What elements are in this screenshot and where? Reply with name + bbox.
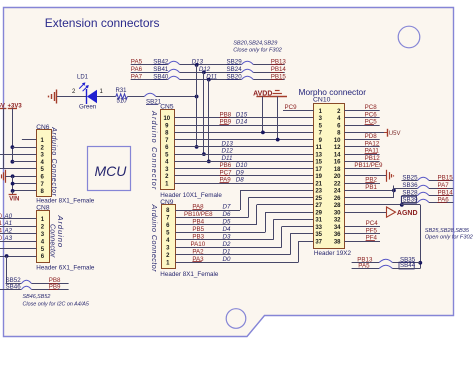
wire SB39 to PA6	[429, 202, 453, 204]
wire PB12 stub	[344, 161, 379, 163]
wire CN10 row13 stub	[344, 197, 394, 199]
wire CN8 pin1	[0, 218, 36, 220]
wire A5 vertical to SB52	[6, 256, 8, 283]
reference CN8	[36, 205, 50, 212]
wire CN9 pin6 horizontal	[176, 224, 257, 226]
svg-text:13: 13	[315, 152, 322, 158]
svg-text:15: 15	[315, 160, 322, 166]
junction AVDD / CN5 pin8 row	[261, 130, 265, 134]
svg-text:12: 12	[334, 145, 341, 151]
power +3V3	[8, 103, 23, 109]
svg-text:0: 0	[0, 235, 3, 242]
net PB13 bottom	[357, 257, 373, 264]
wire CN8 pin5 A4	[0, 248, 36, 250]
svg-text:CN9: CN9	[160, 199, 174, 206]
junction D11 / CN5	[207, 159, 211, 163]
junction ground / CN5 pin7 row	[276, 138, 280, 142]
wire SB46 to PB9	[32, 289, 69, 291]
wire CN5 row to CN10 row 11	[174, 183, 313, 185]
node D12	[199, 66, 211, 73]
svg-text:LD1: LD1	[77, 75, 89, 81]
wire CN5 row to CN10 row 4	[174, 132, 313, 134]
junction row14 / bridge vertical B	[400, 203, 404, 207]
svg-text:SB20,SB24,SB29: SB20,SB24,SB29	[233, 40, 277, 46]
svg-text:38: 38	[334, 239, 341, 245]
mounting hole circle top-right	[398, 26, 420, 48]
wire mid ground vertical	[277, 96, 279, 139]
wire CN8 pin2	[0, 226, 36, 228]
net PA10 / D2 (CN9 pin3)	[191, 241, 231, 248]
junction SB35 row	[418, 261, 422, 265]
net PA6	[438, 197, 450, 204]
wire D0 to CN10 row 19	[298, 241, 313, 243]
wire SB52 to PB8	[32, 283, 69, 285]
wire PA5 to SB44	[352, 268, 380, 270]
wire PA5 to SB42	[131, 64, 168, 66]
ground symbol at CN6	[2, 170, 6, 183]
label SB21	[146, 98, 162, 105]
net PF5 (CN10 row 18)	[366, 227, 378, 234]
wire CN8 pin3	[0, 233, 36, 235]
net A1 (CN8 pin2)	[0, 220, 13, 227]
ground symbol at CN10	[387, 170, 394, 182]
wire SB29 to PB13	[253, 64, 284, 66]
wire CN5 row to CN10 row 5	[174, 139, 313, 141]
junction CN6 pin8	[11, 189, 15, 193]
svg-text:Header 10X1_Female: Header 10X1_Female	[160, 192, 222, 199]
ground symbol mid (inverted)	[269, 91, 287, 97]
svg-text:Arduino Connector: Arduino Connector	[150, 204, 159, 273]
label Morpho connector	[299, 87, 367, 97]
wire LED to R31	[97, 96, 116, 98]
wire CN5 row to CN10 row 8	[174, 161, 313, 163]
svg-text:A3: A3	[4, 235, 13, 242]
wire SB21 to D13 node	[156, 96, 197, 98]
net PB14	[438, 189, 454, 196]
svg-text:D2: D2	[223, 241, 231, 248]
solder bridge SB24	[227, 66, 254, 73]
ground symbol GND1 (left of LED)	[49, 90, 63, 104]
svg-text:25: 25	[315, 196, 322, 202]
label MCU	[95, 163, 128, 179]
wire CN6 pin1 stub	[22, 139, 36, 141]
svg-text:22: 22	[334, 181, 341, 187]
wire SB42 to SB29	[180, 64, 242, 66]
svg-text:28: 28	[334, 203, 341, 209]
connector CN8 body	[37, 211, 50, 263]
wire row14 to SB35 vertical	[402, 205, 421, 269]
power VIN	[9, 191, 20, 203]
svg-text:D7: D7	[223, 204, 231, 211]
node D13 at CN5	[222, 140, 234, 147]
wire D1 to CN10 row 18	[290, 233, 314, 235]
wire CN9 pin4 horizontal	[176, 239, 274, 241]
wire CN6 pin4 to +3V3	[12, 161, 36, 163]
wire D13 vertical	[196, 65, 198, 147]
wire PB13 to SB35	[352, 262, 380, 264]
svg-text:SB25,SB28,SB35: SB25,SB28,SB35	[425, 228, 470, 234]
MCU block U1	[88, 147, 131, 191]
net PA11 (CN10 row 7)	[365, 148, 380, 155]
label Arduino CN8	[56, 215, 65, 248]
wire PB2 stub	[344, 183, 380, 185]
wire PC9 stub	[283, 110, 314, 112]
net PB3 / D3 (CN9 pin4)	[192, 233, 231, 240]
power +5V	[0, 103, 6, 169]
pin numbers CN5 10-1	[163, 116, 170, 187]
net PA5	[131, 59, 143, 66]
power U5V	[384, 129, 400, 137]
svg-text:37: 37	[315, 239, 322, 245]
wire PC5 stub	[344, 125, 379, 127]
solder bridge SB39	[401, 196, 429, 203]
net A2 (CN8 pin3)	[0, 228, 13, 235]
svg-text:29: 29	[315, 210, 322, 216]
svg-text:Close only for F302: Close only for F302	[233, 47, 282, 53]
svg-text:36: 36	[334, 232, 341, 238]
svg-text:31: 31	[315, 218, 322, 224]
wire SB44 to vertical	[392, 268, 420, 270]
svg-text:D10: D10	[236, 162, 248, 169]
svg-text:MCU: MCU	[95, 163, 128, 179]
svg-text:Header 6X1_Female: Header 6X1_Female	[36, 264, 95, 271]
junction D13 / CN5	[195, 145, 199, 149]
svg-text:24: 24	[334, 189, 341, 195]
svg-text:CN6: CN6	[36, 124, 50, 131]
net PB10/PE8 / D6 (CN9 pin7)	[184, 211, 231, 218]
solder bridge SB29	[227, 59, 254, 66]
wire D3 vertical	[273, 219, 275, 239]
net PC5 (CN10 row 3)	[365, 119, 378, 126]
wire SB24 to PB14	[253, 72, 284, 74]
svg-text:32: 32	[334, 218, 341, 224]
label Green	[79, 104, 97, 111]
wire D11 vertical	[208, 80, 210, 162]
connector CN5 body	[161, 110, 175, 190]
svg-text:D8: D8	[236, 177, 244, 184]
svg-text:11: 11	[316, 145, 323, 151]
junction CN6 pin6	[11, 174, 15, 178]
wire D4 to CN10 row 15	[265, 212, 314, 214]
power AVDD	[253, 90, 272, 97]
label Header 19X2 CN10	[314, 250, 352, 257]
reference CN9	[160, 199, 174, 206]
svg-text:D11: D11	[222, 155, 233, 162]
wire CN5 row to CN10 row 7	[174, 154, 313, 156]
svg-text:CN10: CN10	[313, 97, 331, 104]
resistor R31	[116, 94, 128, 99]
net PB5 / D4 (CN9 pin5)	[192, 226, 231, 233]
wire D5 to CN10 row 14	[257, 204, 314, 206]
junction D12 / CN5	[202, 152, 206, 156]
net PC9 (CN10 pin1)	[285, 104, 298, 111]
wire SB20 to PB15	[253, 79, 284, 81]
wire bridge vertical A	[393, 186, 395, 198]
wire SB35 to vertical	[392, 262, 420, 264]
note SB25,SB28,SB35	[425, 228, 470, 234]
svg-text:D15: D15	[236, 111, 248, 118]
wire PA7 to SB40	[131, 79, 168, 81]
svg-text:SB46,SB52: SB46,SB52	[23, 294, 51, 300]
net PB8 / D15	[220, 111, 248, 118]
junction D11 row	[207, 78, 211, 82]
svg-text:18: 18	[334, 167, 341, 173]
svg-text:10: 10	[334, 138, 341, 144]
svg-text:CN5: CN5	[160, 103, 174, 110]
wire CN9 pin5 horizontal	[176, 232, 266, 234]
svg-text:Extension connectors: Extension connectors	[45, 16, 160, 30]
wire CN9 pin7 horizontal	[176, 217, 249, 219]
svg-text:26: 26	[334, 196, 341, 202]
svg-text:21: 21	[315, 181, 322, 187]
svg-text:33: 33	[315, 225, 322, 231]
wire CN5 row to CN10 row 9	[174, 168, 313, 170]
label LD1	[77, 75, 89, 81]
solder bridge SB25	[402, 175, 430, 182]
solder bridge SB46	[0, 284, 32, 291]
net A3 (CN8 pin4)	[0, 235, 13, 242]
net PB1	[365, 184, 377, 191]
wire bridge vertical B	[401, 196, 403, 205]
svg-text:Close only for I2C on A4/A5: Close only for I2C on A4/A5	[23, 302, 90, 308]
note Open only for F302	[425, 235, 474, 241]
wire SB25 to PB15	[429, 180, 453, 182]
junction +3V3 / CN6 pin4	[11, 160, 15, 164]
net PF4 (CN10 row 19)	[366, 235, 378, 242]
net PC6 (CN10 row 2)	[365, 111, 378, 118]
wire ground vertical CN6	[12, 176, 14, 191]
svg-text:U5V: U5V	[389, 131, 401, 137]
reference CN5	[160, 103, 174, 110]
solder bridge SB28	[402, 189, 429, 196]
wire CN9 pin1 horizontal	[176, 262, 299, 264]
wire PA12 stub	[344, 146, 379, 148]
note Close only for I2C on A4/A5	[23, 302, 90, 308]
svg-text:D0: D0	[223, 256, 231, 263]
pin numbers CN9 8-1	[166, 208, 170, 266]
wire D2 to CN10 row 17	[282, 226, 314, 228]
svg-text:17: 17	[315, 167, 322, 173]
node D13	[192, 59, 204, 66]
pin numbers CN8 1-6	[41, 217, 45, 260]
net PA2 / D1 (CN9 pin2)	[192, 248, 230, 255]
note SB46,SB52	[23, 294, 51, 300]
junction PB1 / bridge vertical	[392, 188, 396, 192]
svg-text:CN8: CN8	[36, 205, 50, 212]
svg-text:Morpho connector: Morpho connector	[299, 87, 367, 97]
net PA7	[438, 182, 450, 189]
svg-text:AGND: AGND	[397, 210, 418, 217]
junction D13 row	[195, 63, 199, 67]
net PB15	[271, 73, 287, 80]
connector CN9 body	[162, 205, 176, 269]
svg-text:PA10: PA10	[191, 241, 206, 248]
net PB9 (I2C)	[49, 284, 61, 291]
svg-text:20: 20	[334, 174, 341, 180]
svg-text:30: 30	[334, 210, 341, 216]
wire D5 vertical	[256, 205, 258, 225]
label R31	[116, 88, 128, 94]
solder bridge SB20	[227, 73, 254, 80]
solder bridge SB44	[379, 262, 415, 269]
svg-text:16: 16	[334, 160, 341, 166]
svg-text:SB41: SB41	[153, 66, 169, 73]
wire CN9 pin2 horizontal	[176, 254, 291, 256]
svg-text:10: 10	[163, 116, 170, 122]
svg-text:SB24: SB24	[227, 66, 243, 73]
svg-text:35: 35	[315, 232, 322, 238]
wire CN6 pin8 VIN	[13, 190, 37, 192]
wire CN9 pin3 horizontal	[176, 247, 282, 249]
wire PC6 stub	[344, 117, 379, 119]
svg-text:14: 14	[334, 152, 341, 158]
wire CN6 pin7	[13, 183, 37, 185]
connector CN10 body	[314, 104, 345, 249]
wire CN10 row14 stub	[344, 204, 401, 206]
wire CN5 row to CN10 row 3	[174, 125, 313, 127]
wire PA11 stub	[344, 154, 379, 156]
wire PC8 stub	[344, 110, 379, 112]
wire D7 vertical	[240, 190, 242, 210]
svg-text:PB1: PB1	[365, 184, 377, 191]
svg-text:D4: D4	[223, 226, 231, 233]
net PA9 / D8	[220, 177, 245, 184]
wire D12 vertical	[203, 72, 205, 154]
solder bridge SB35	[379, 257, 415, 264]
wire D2 vertical	[281, 227, 283, 248]
wire D0 vertical	[298, 241, 300, 262]
wire PB11/PE9 stub	[344, 168, 379, 170]
svg-text:R31: R31	[116, 88, 128, 94]
junction LED wire / D13 vertical	[195, 95, 199, 99]
wire CN6 pin5 to +5V	[0, 168, 36, 170]
wire AVDD vertical	[262, 96, 264, 132]
net PA12 (CN10 row 6)	[365, 140, 380, 147]
wire D7 to CN10 row 12	[240, 190, 314, 192]
svg-text:510: 510	[117, 99, 128, 105]
net PA6	[131, 66, 143, 73]
title Extension connectors	[45, 16, 160, 30]
net PB11/PE9 (CN10 row 9)	[354, 162, 383, 169]
svg-text:34: 34	[334, 225, 341, 231]
note SB20,SB24,SB29	[233, 40, 277, 46]
wire CN8 pin4	[0, 241, 36, 243]
svg-text:Arduino Connector: Arduino Connector	[50, 126, 57, 196]
mounting hole circle bottom	[226, 309, 246, 329]
power AGND	[387, 207, 418, 217]
junction CN8 pin6 / SB52	[5, 254, 9, 258]
label Arduino Connector CN9	[150, 204, 159, 273]
wire CN5 row to CN10 row 10	[174, 175, 313, 177]
svg-text:PB14: PB14	[271, 66, 287, 73]
wire PA6 to SB41	[131, 72, 168, 74]
wire D1 vertical	[290, 234, 292, 255]
node D11	[206, 73, 217, 80]
svg-text:PC9: PC9	[285, 104, 298, 111]
note Close only for F302	[233, 47, 282, 53]
svg-text:D12: D12	[222, 148, 234, 155]
wire CN5 row to CN10 row 6	[174, 146, 313, 148]
wire SB40 to SB20	[180, 79, 242, 81]
wire PF5 stub	[344, 233, 380, 235]
wire D6 to CN10 row 13	[248, 197, 313, 199]
pin number 2 of LD1	[72, 89, 76, 95]
solder bridge SB42	[153, 59, 179, 66]
net PA7	[131, 73, 143, 80]
net PB13	[271, 59, 287, 66]
label Header 6X1_Female CN8	[36, 264, 95, 271]
svg-text:D9: D9	[236, 169, 244, 176]
label Header 8X1_Female CN6	[36, 198, 95, 205]
net PC7 / D9	[220, 169, 245, 176]
label Arduino Connector CN6	[50, 126, 57, 196]
wire PD8 stub	[344, 139, 379, 141]
wire CN8 pin6 A5	[0, 256, 36, 258]
wire D4 vertical	[265, 212, 267, 232]
svg-text:Arduino Connector: Arduino Connector	[150, 110, 159, 190]
net PB12 (CN10 row 8)	[365, 155, 381, 162]
net PC4 (CN10 row 17)	[366, 220, 379, 227]
wire CN9 pin8 horizontal	[176, 210, 241, 212]
junction D12 row	[202, 70, 206, 74]
net PA3 / D0 (CN9 pin1)	[192, 256, 231, 263]
net PB15	[438, 175, 454, 182]
net PC8 (CN10 row 1)	[365, 104, 378, 111]
svg-text:SB36: SB36	[402, 182, 418, 189]
wire CN6 pin3 NRST	[0, 154, 36, 156]
svg-text:PA6: PA6	[131, 66, 143, 73]
svg-text:Header 19X2: Header 19X2	[314, 250, 352, 257]
connector CN6 body	[37, 130, 52, 197]
net A0 (CN8 pin1)	[0, 213, 13, 220]
wire PF4 stub	[344, 241, 380, 243]
svg-text:PB5: PB5	[192, 226, 204, 233]
svg-text:Connector: Connector	[49, 224, 56, 258]
wire SB36 to PA7	[429, 188, 453, 190]
label Header 8X1_Female CN9	[160, 271, 219, 278]
net PB4 / D5 (CN9 pin6)	[192, 219, 231, 226]
net PA8 / D7 (CN9 pin8)	[192, 204, 231, 211]
wire PB1 stub	[344, 190, 394, 192]
wire CN10 pin30 to AGND	[344, 212, 386, 214]
svg-text:VIN: VIN	[9, 197, 19, 203]
svg-text:Header 8X1_Female: Header 8X1_Female	[160, 271, 219, 278]
wire CN10 pin8 to U5V	[344, 132, 387, 134]
svg-text:PA7: PA7	[438, 182, 450, 189]
solder bridge SB36	[394, 182, 429, 189]
wire D6 vertical	[248, 198, 250, 218]
svg-text:Green: Green	[79, 104, 97, 111]
svg-text:23: 23	[315, 189, 322, 195]
label Connector CN8	[49, 224, 56, 258]
label Arduino Connector CN5	[150, 110, 159, 190]
solder bridge SB52	[6, 277, 32, 284]
net PD8 (CN10 row 5)	[365, 133, 378, 140]
svg-text:D13: D13	[222, 140, 234, 147]
pin numbers CN6 1-8	[41, 138, 45, 195]
net PA5 bottom	[358, 262, 370, 269]
pin number 1 of LD1	[100, 89, 104, 95]
svg-text:PB12: PB12	[365, 155, 381, 162]
reference CN10	[313, 97, 331, 104]
net PB6 / D10	[220, 162, 248, 169]
net PB2	[365, 177, 377, 184]
wire CN6 pin6 to ground	[5, 176, 36, 178]
svg-text:Arduino: Arduino	[56, 215, 65, 248]
svg-text:19: 19	[315, 174, 322, 180]
wire R31 to SB21	[127, 96, 144, 98]
net PB9 / D14	[220, 119, 248, 126]
